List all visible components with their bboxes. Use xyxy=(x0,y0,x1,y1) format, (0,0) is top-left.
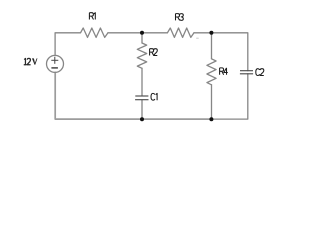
wire: top rail R3 to node B xyxy=(194,32,212,34)
voltage source minus sign xyxy=(51,67,58,69)
wire: C1 bottom plate to node C xyxy=(141,100,143,119)
wire: R4 top lead from node B xyxy=(211,33,213,59)
resistor R3 xyxy=(167,28,194,37)
resistor R4 xyxy=(207,59,216,85)
resistor R1 xyxy=(81,28,109,37)
node A junction dot xyxy=(140,31,144,35)
wire: C2 bottom plate down to bottom-right corner, left to node D xyxy=(212,74,248,119)
wire: left rail up from source to top-left corner, right to R1 xyxy=(55,33,80,56)
wire: bottom rail node C to bottom-left corner, up to source xyxy=(55,72,142,119)
wire: top rail R1 to node A xyxy=(108,32,142,34)
wire: R2 to C1 top plate xyxy=(141,68,143,95)
wire: R4 bottom lead to node D xyxy=(211,85,213,119)
label C2 xyxy=(256,69,264,76)
capacitor C2 plates xyxy=(240,71,253,74)
wire: R2 top lead from node A xyxy=(141,33,143,43)
label R4 xyxy=(220,68,228,75)
label R1 xyxy=(89,13,95,20)
voltage source plus sign xyxy=(51,57,58,64)
capacitor C1 plates xyxy=(135,96,148,100)
node C junction dot xyxy=(140,117,144,121)
wire: bottom rail node D to node C xyxy=(142,118,212,120)
node D junction dot xyxy=(209,117,213,121)
stray artifact mark xyxy=(196,38,199,39)
wire: top rail node A to R3 xyxy=(142,32,167,34)
voltage source V1 circle xyxy=(47,55,64,72)
label C1 xyxy=(151,93,157,100)
label 12 V xyxy=(24,58,31,64)
label R3 xyxy=(176,14,184,21)
node B junction dot xyxy=(209,31,213,35)
resistor R2 xyxy=(137,43,146,68)
label R2 xyxy=(150,49,158,56)
wire: node B to top-right corner, down to C2 top plate xyxy=(212,33,248,71)
